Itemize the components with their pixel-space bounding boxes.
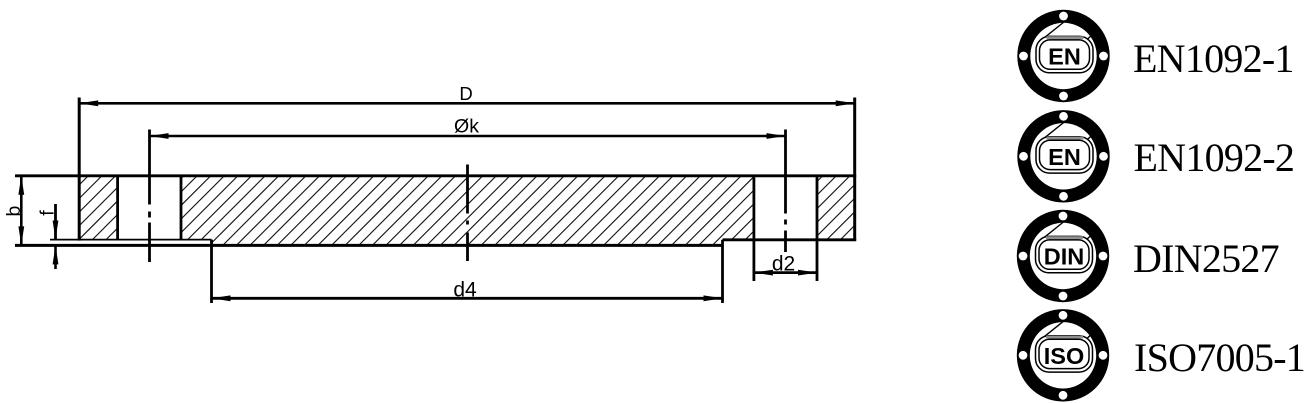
svg-text:EN1092-2: EN1092-2 [1134,135,1295,180]
svg-text:DIN: DIN [1044,244,1084,270]
flange icon EN1092-2 [1017,110,1109,202]
svg-text:EN: EN [1048,44,1081,70]
bolt hole left, left edge [116,176,119,240]
flange top edge (with b extension to left) [15,174,856,177]
svg-text:ISO7005-1: ISO7005-1 [1134,335,1305,380]
bolt hole right, right edge / d2 extension [816,176,819,281]
flange left edge / D extension [78,98,81,241]
svg-text:d2: d2 [772,253,795,276]
dimension b line [20,176,23,246]
dimension f lower arrow [54,245,57,269]
svg-text:D: D [459,83,472,104]
svg-text:b: b [3,205,25,216]
dimension Øk line [150,135,786,138]
flange icon DIN2527 [1017,210,1109,302]
plate bottom left (with f extension) [50,239,212,241]
raised face bottom (with b extension to left) [15,244,723,247]
svg-text:d4: d4 [453,278,477,301]
svg-text:ISO: ISO [1044,343,1084,369]
dimension d4 line [212,297,723,300]
raised face step left / d4 extension [210,240,213,303]
dimension d2 line [754,271,817,274]
flange icon EN1092-1 [1017,10,1109,102]
dimension f upper arrow [54,204,57,240]
centerline bolt right [784,130,787,253]
hatching [1,166,942,250]
svg-text:Øk: Øk [454,116,479,138]
svg-text:f: f [37,210,59,216]
svg-text:DIN2527: DIN2527 [1133,236,1279,281]
bolt hole left, right edge [180,176,183,240]
flange right edge / D extension [853,98,856,241]
bolt hole right, left edge / d2 extension [753,176,756,281]
raised face step right / d4 extension [721,240,724,303]
dimension D line [79,102,855,105]
centerline bolt left [148,130,151,263]
flange icon ISO7005-1 [1017,309,1109,401]
svg-text:EN1092-1: EN1092-1 [1133,36,1294,81]
centerline flange axis [466,165,469,262]
plate bottom right [723,238,857,241]
